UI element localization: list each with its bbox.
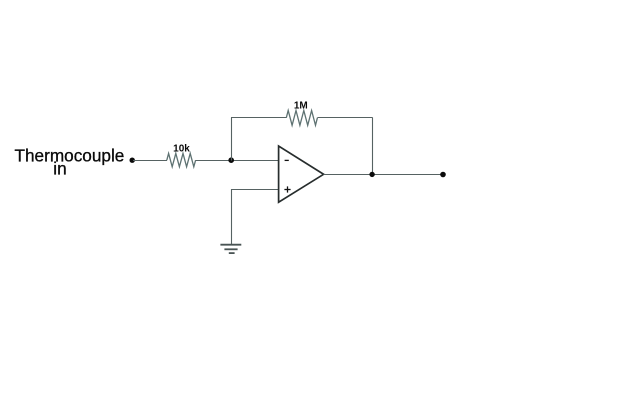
- wire: non-inverting input horizontal: [232, 189, 279, 191]
- svg-text:1M: 1M: [294, 101, 308, 112]
- wire: R1 to inverting input node: [196, 160, 279, 162]
- node: output feedback junction dot: [369, 172, 374, 177]
- node: junction dot at inverting input: [228, 157, 234, 163]
- resistor R2 1M zigzag: [286, 111, 317, 126]
- wire: feedback top right segment: [317, 117, 372, 119]
- wire: junction up to feedback: [231, 118, 233, 161]
- op-amp non-inverting pin marker +: [284, 186, 290, 192]
- wire: ground drop vertical: [231, 189, 233, 245]
- wire: input terminal to R1: [133, 160, 167, 162]
- node: output terminal dot: [440, 172, 446, 178]
- wire: op-amp output to terminal: [324, 174, 443, 176]
- resistor R1 10k zigzag: [167, 153, 196, 166]
- svg-text:10k: 10k: [173, 143, 190, 154]
- op-amp U1 triangle: [279, 146, 324, 202]
- svg-text:Thermocouple: Thermocouple: [15, 146, 125, 166]
- wire: feedback right vertical down to output: [372, 118, 374, 175]
- op-amp inverting pin marker -: [285, 159, 289, 161]
- wire: feedback top left segment: [231, 117, 286, 119]
- node: thermocouple input terminal dot: [130, 158, 135, 163]
- svg-text:in: in: [53, 159, 66, 179]
- ground symbol: [220, 245, 241, 253]
- node label: Thermocouple in: [15, 146, 125, 179]
